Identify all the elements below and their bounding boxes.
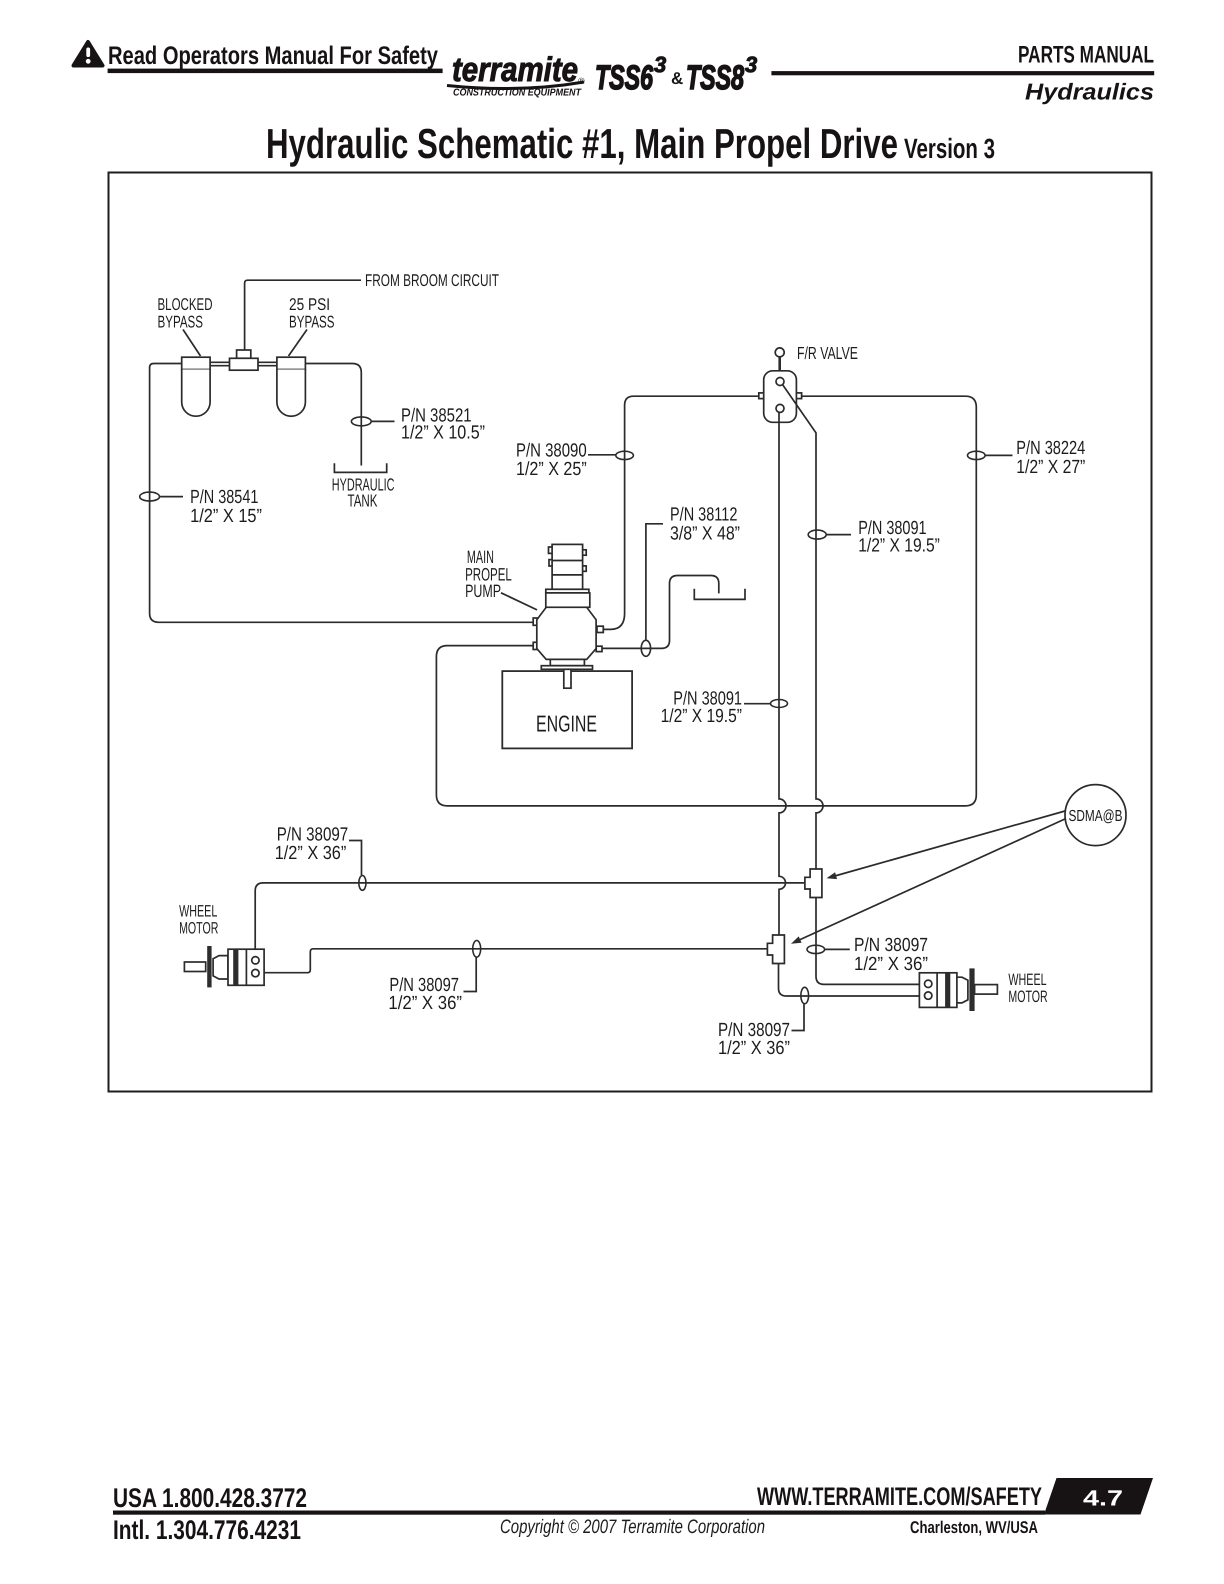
svg-text:3: 3	[654, 52, 666, 77]
svg-text:1/2” X 36”: 1/2” X 36”	[718, 1038, 790, 1059]
svg-text:TANK: TANK	[348, 490, 378, 510]
leader for P/N 38091 upper	[826, 534, 851, 536]
svg-text:Hydraulic Schematic #1, Main P: Hydraulic Schematic #1, Main Propel Driv…	[266, 120, 898, 167]
hose P/N 38097 wire: left motor lower port to lower tee	[264, 949, 767, 973]
svg-text:Charleston, WV/USA: Charleston, WV/USA	[910, 1518, 1038, 1537]
valve bottom port wire (line 1) with hops	[779, 412, 786, 935]
hydraulic tank symbol	[334, 463, 386, 472]
svg-text:1/2” X 36”: 1/2” X 36”	[854, 954, 928, 975]
svg-text:Hydraulics: Hydraulics	[1025, 79, 1154, 105]
logo TSS8 mark	[686, 52, 757, 97]
svg-text:SDMA@B: SDMA@B	[1069, 808, 1123, 825]
svg-text:®: ®	[578, 76, 585, 86]
wire tank suction to pump (hose P/N 38541)	[150, 364, 534, 623]
hose P/N 38090 wire: valve left port to pump top-right port	[603, 396, 759, 629]
leader for P/N 38224	[985, 454, 1012, 456]
svg-text:MOTOR: MOTOR	[179, 919, 218, 937]
label P/N 38097 right	[854, 935, 928, 975]
svg-text:ENGINE: ENGINE	[536, 711, 597, 737]
wire upper tee to right wheel motor upper port	[816, 898, 919, 985]
fitting ellipse P/N 38112	[641, 640, 650, 656]
schematic border box	[109, 173, 1152, 1092]
label P/N 38097 top-left	[275, 824, 349, 864]
label WHEEL MOTOR left	[179, 902, 218, 937]
label 25 PSI BYPASS	[289, 295, 335, 332]
svg-text:TSS8: TSS8	[686, 59, 744, 97]
svg-text:CONSTRUCTION EQUIPMENT: CONSTRUCTION EQUIPMENT	[453, 88, 582, 99]
leader for blocked bypass	[183, 330, 201, 357]
wire filter outlet to hydraulic tank (hose P/N 38521)	[305, 364, 361, 466]
label P/N 38097 bottom-right	[718, 1020, 790, 1059]
wire filter cross tubes (double lines)	[210, 362, 277, 365]
footer bar	[113, 1511, 1045, 1515]
svg-text:BLOCKED: BLOCKED	[158, 295, 213, 314]
hose P/N 38224 wire: pump lower-left port around bottom loop to valve right port	[436, 396, 976, 806]
hose P/N 38097 wire: left motor top feed	[255, 883, 805, 950]
leader for P/N 38541	[160, 496, 184, 498]
F/R valve	[759, 348, 802, 422]
label P/N 38090	[516, 441, 587, 480]
leader for P/N 38091 lower	[744, 703, 770, 705]
svg-text:P/N 38541: P/N 38541	[190, 487, 258, 508]
leader for P/N 38097 right label	[825, 948, 850, 950]
fitting ellipse P/N 38097 right	[807, 945, 825, 953]
hose P/N 38112 leader wire	[646, 524, 663, 640]
tee fitting between filters	[230, 350, 259, 370]
label P/N 38521	[401, 405, 485, 443]
svg-text:P/N 38097: P/N 38097	[854, 935, 928, 956]
fitting ellipse P/N 38097 top-left	[359, 876, 366, 891]
left wheel motor	[184, 946, 264, 987]
label HYDRAULIC TANK	[332, 475, 395, 511]
svg-text:1/2” X 15”: 1/2” X 15”	[190, 506, 262, 527]
header left underline bar	[108, 69, 443, 74]
fitting ellipse P/N 38521	[351, 417, 371, 426]
leader for P/N 38097 bottom-right label	[792, 1004, 805, 1031]
svg-text:1/2” X 19.5”: 1/2” X 19.5”	[858, 536, 940, 557]
leader for 25 psi bypass	[289, 330, 308, 357]
svg-text:BYPASS: BYPASS	[289, 313, 335, 332]
arrow SDMA to upper tee	[827, 811, 1066, 879]
filter 25 PSI BYPASS	[277, 357, 306, 416]
svg-text:25 PSI: 25 PSI	[289, 295, 330, 314]
svg-text:FROM BROOM CIRCUIT: FROM BROOM CIRCUIT	[365, 271, 499, 290]
svg-text:terramite: terramite	[452, 51, 578, 89]
label P/N 38097 bottom-mid	[388, 975, 462, 1014]
svg-text:Intl. 1.304.776.4231: Intl. 1.304.776.4231	[113, 1515, 301, 1545]
svg-text:USA 1.800.428.3772: USA 1.800.428.3772	[113, 1483, 307, 1513]
svg-text:&: &	[671, 69, 683, 88]
svg-text:WWW.TERRAMITE.COM/SAFETY: WWW.TERRAMITE.COM/SAFETY	[757, 1483, 1042, 1511]
main propel pump	[533, 544, 603, 669]
label P/N 38224	[1016, 438, 1085, 478]
svg-text:WHEEL: WHEEL	[179, 902, 217, 920]
fitting ellipse P/N 38224	[968, 451, 986, 459]
footer page tab parallelogram	[1044, 1478, 1153, 1515]
fitting ellipse P/N 38097 bottom-right	[801, 987, 809, 1003]
small reservoir symbol	[694, 589, 745, 600]
svg-text:1/2” X 10.5”: 1/2” X 10.5”	[401, 422, 485, 443]
svg-text:PARTS MANUAL: PARTS MANUAL	[1018, 42, 1154, 69]
svg-text:1/2” X 27”: 1/2” X 27”	[1016, 457, 1085, 478]
warning triangle icon	[74, 42, 103, 66]
logo TSS6 mark	[595, 52, 666, 97]
fitting ellipse P/N 38091 lower	[771, 700, 788, 708]
svg-text:P/N 38224: P/N 38224	[1016, 438, 1085, 459]
label P/N 38112	[670, 504, 740, 544]
leader for P/N 38097 bottom-mid label	[464, 958, 477, 992]
label P/N 38541	[190, 487, 262, 527]
svg-text:F/R VALVE: F/R VALVE	[797, 343, 858, 363]
leader for P/N 38097 top-left label	[349, 841, 362, 876]
pump case drain wire to small reservoir	[602, 576, 719, 649]
tee fitting lower (to right motor)	[767, 935, 784, 964]
pump shaft stub into engine	[564, 669, 571, 688]
svg-text:Version 3: Version 3	[904, 133, 995, 164]
svg-text:3: 3	[745, 52, 757, 77]
fitting ellipse P/N 38090	[616, 451, 634, 459]
arrow SDMA to lower tee	[791, 819, 1066, 944]
svg-text:Copyright © 2007 Terramite Cor: Copyright © 2007 Terramite Corporation	[500, 1516, 765, 1538]
svg-text:PUMP: PUMP	[465, 581, 501, 601]
svg-text:Read Operators Manual For Safe: Read Operators Manual For Safety	[108, 42, 439, 70]
svg-text:BYPASS: BYPASS	[158, 313, 204, 332]
filter BLOCKED BYPASS	[182, 357, 210, 416]
svg-text:P/N 38112: P/N 38112	[670, 504, 737, 525]
svg-text:1/2” X 36”: 1/2” X 36”	[388, 993, 462, 1014]
engine box	[502, 671, 632, 748]
fitting ellipse P/N 38541	[140, 492, 160, 501]
fitting ellipse P/N 38097 bottom-mid	[473, 941, 481, 958]
svg-text:1/2” X 19.5”: 1/2” X 19.5”	[661, 706, 742, 727]
wire lower tee to right wheel motor lower port	[779, 964, 920, 997]
header right rule	[771, 71, 1154, 75]
svg-text:TSS6: TSS6	[595, 59, 654, 97]
svg-text:MOTOR: MOTOR	[1008, 988, 1047, 1006]
label WHEEL MOTOR right	[1008, 971, 1047, 1006]
tee fitting upper (to right motor)	[805, 869, 822, 898]
valve diagonal wire (line 2) with hop	[783, 385, 824, 870]
fitting ellipse P/N 38091 upper	[808, 530, 826, 539]
SDMA@B balloon	[1065, 785, 1126, 846]
svg-text:1/2” X 36”: 1/2” X 36”	[275, 843, 347, 864]
label P/N 38091 upper	[858, 518, 940, 557]
label BLOCKED BYPASS	[158, 295, 213, 332]
label MAIN PROPEL PUMP	[465, 547, 512, 601]
leader for P/N 38521	[371, 420, 394, 422]
svg-text:3/8” X 48”: 3/8” X 48”	[670, 524, 740, 545]
label P/N 38091 lower	[661, 688, 742, 727]
svg-text:WHEEL: WHEEL	[1008, 971, 1046, 989]
right wheel motor	[919, 968, 997, 1011]
leader for P/N 38090	[588, 454, 616, 456]
leader for main propel pump	[501, 593, 537, 610]
wire from broom circuit leader	[245, 280, 361, 350]
svg-text:4.7: 4.7	[1083, 1486, 1123, 1511]
terramite logo script	[447, 51, 585, 89]
svg-text:1/2” X 25”: 1/2” X 25”	[516, 459, 587, 480]
